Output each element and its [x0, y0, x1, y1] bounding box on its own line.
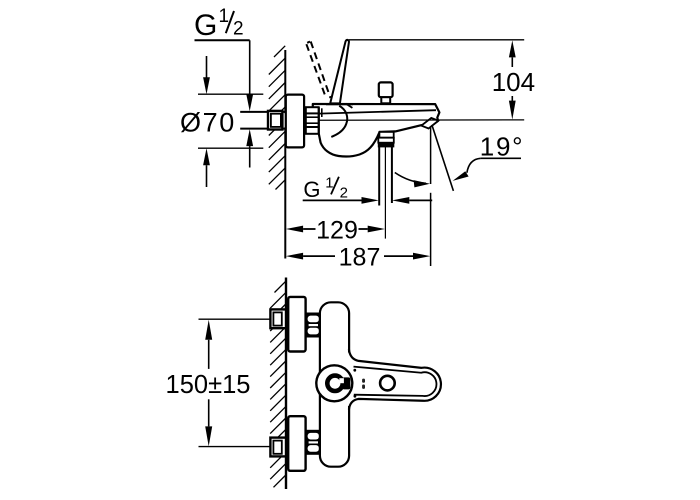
- hose centre extension line: [384, 147, 386, 239]
- dimension Ø70: [180, 56, 263, 187]
- spout arm outline (front view): [349, 349, 441, 409]
- shower hose connector: [378, 132, 394, 147]
- diverter knob (side view): [379, 82, 393, 103]
- lever handle (dashed alternate position): [306, 42, 330, 99]
- svg-text:1: 1: [325, 175, 333, 192]
- label G1/2 (hose connection): [303, 175, 433, 204]
- svg-text:104: 104: [492, 67, 535, 97]
- spout arm inner line: [354, 367, 437, 396]
- svg-text:19°: 19°: [480, 131, 524, 161]
- escutcheon top (front view): [288, 297, 305, 352]
- label 19deg: [453, 131, 525, 181]
- escutcheon Ø70 (top view): [286, 95, 304, 148]
- svg-text:2: 2: [340, 184, 348, 201]
- square union nut top (front view): [270, 309, 286, 328]
- square union nut bottom (front view): [270, 438, 286, 457]
- knurled nut top (front view): [306, 313, 320, 338]
- wall (top view): [284, 50, 286, 259]
- dimension 104: [492, 40, 535, 119]
- body inner edge line: [319, 110, 436, 113]
- dial G-ring: [327, 376, 342, 391]
- escutcheon bottom (front view): [288, 416, 305, 471]
- svg-text:2: 2: [233, 19, 244, 40]
- dial tab: [342, 377, 350, 389]
- svg-text:129: 129: [316, 217, 358, 245]
- indicator dot hot: [353, 369, 356, 372]
- angle arc with arrow: [395, 173, 430, 188]
- knurled nut bottom (front view): [306, 430, 320, 455]
- wall hatching (front view): [270, 281, 286, 487]
- dimension 150±15: [166, 319, 271, 446]
- svg-text:G: G: [303, 177, 320, 202]
- supply pipe (top view): [240, 112, 285, 129]
- body collar edge: [321, 108, 323, 117]
- svg-text:Ø70: Ø70: [180, 108, 236, 138]
- leader line G1/2 top: [246, 40, 253, 167]
- indicator dot cold: [354, 395, 357, 398]
- lever handle (solid position): [326, 40, 353, 108]
- hose pipe: [379, 147, 392, 206]
- cartridge dome curve: [331, 106, 347, 137]
- aerator tip: [421, 118, 438, 129]
- wall (front view): [285, 278, 287, 490]
- spout lower edge / 104 extension line: [320, 119, 525, 121]
- svg-text:150±15: 150±15: [166, 371, 251, 399]
- wall hatching (top view): [269, 46, 285, 190]
- svg-text:G: G: [194, 9, 217, 42]
- faucet body (side view): [313, 104, 440, 157]
- diverter button (front view): [380, 376, 395, 391]
- knurled union nut (side view): [304, 107, 319, 134]
- 19-degree slanted line: [432, 125, 454, 191]
- dimension 129: [286, 217, 385, 245]
- svg-text:187: 187: [339, 243, 381, 271]
- temperature dial boss (front view): [316, 365, 352, 401]
- body capsule (front view): [320, 302, 349, 466]
- spout tip vertical reference line: [430, 128, 432, 184]
- square union nut G1/2 (top view): [268, 111, 282, 130]
- label G1/2 (wall connection, top-left): [194, 6, 250, 42]
- svg-text:1: 1: [219, 6, 230, 27]
- tiny GROHE logo mark: [362, 379, 365, 383]
- dimension 187: [286, 243, 431, 271]
- 104 top extension line: [349, 39, 524, 41]
- dial notch: [339, 378, 344, 383]
